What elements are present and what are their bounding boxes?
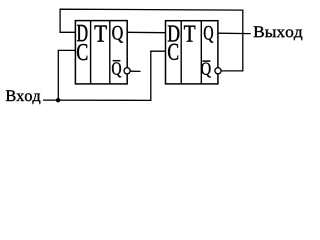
wire: DD1 Q output to DD2 D input xyxy=(127,31,165,33)
DD1 pin label Q xyxy=(112,26,123,43)
flip-flop DD1 outline xyxy=(75,21,127,84)
DD1 pin label C xyxy=(77,44,87,60)
junction dot on input line xyxy=(56,98,60,102)
wire: DD1 Q-bar output stub xyxy=(130,70,140,72)
DD1 pin label D xyxy=(77,25,87,41)
DD1 pin label Q-bar xyxy=(112,61,121,78)
DD2 pin label Q-bar xyxy=(201,61,211,77)
DD1 inversion bubble on Q-bar output xyxy=(124,68,130,74)
DD2 pin label D xyxy=(168,26,180,42)
wire: branch from input line up to DD1 C input xyxy=(58,50,75,100)
wire: DD2 Q output to output terminal xyxy=(218,32,251,34)
flip-flop DD2 outline xyxy=(166,21,218,84)
DD2 inversion bubble on Q-bar output xyxy=(215,68,221,74)
DD2 pin label C xyxy=(168,44,178,60)
wire: input line from Vhod terminal to DD2 C input xyxy=(43,51,166,100)
DD2 function label T xyxy=(184,26,195,42)
DD1 function label T xyxy=(95,26,107,42)
wire: feedback from DD2 Q-bar output over the top to DD1 D input xyxy=(60,9,243,71)
DD2 pin label Q xyxy=(204,26,213,43)
node label: Выход (output) xyxy=(254,26,303,40)
node label: Вход (input) xyxy=(6,90,40,104)
